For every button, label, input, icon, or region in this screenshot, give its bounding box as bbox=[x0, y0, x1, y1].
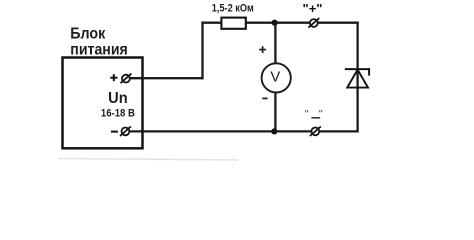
wire: bottom rail bbox=[125, 130, 358, 132]
polarity mark + at voltmeter bbox=[259, 46, 266, 53]
svg-text:Un: Un bbox=[108, 90, 128, 107]
node label "_" (quoted, faint) bbox=[305, 109, 323, 121]
polarity mark - inside supply bbox=[111, 131, 118, 133]
resistor R 1,5-2 kOhm body bbox=[221, 18, 245, 29]
junction: bottom node of voltmeter branch bbox=[271, 128, 277, 134]
svg-text:16-18 В: 16-18 В bbox=[101, 108, 135, 120]
voltmeter PV1 body bbox=[262, 63, 291, 92]
wire: right rail down through zener bbox=[356, 22, 358, 132]
terminal "+" probe point on top rail bbox=[308, 18, 319, 28]
svg-text:": " bbox=[305, 109, 309, 121]
value label 1,5-2 кОм bbox=[212, 3, 254, 15]
svg-text:1,5-2 кОм: 1,5-2 кОм bbox=[212, 3, 254, 15]
svg-text:питания: питания bbox=[70, 41, 128, 58]
node label "+" (quoted) bbox=[303, 1, 323, 16]
power supply block outline bbox=[63, 58, 143, 149]
terminal "-" probe point on bottom rail bbox=[310, 126, 321, 136]
wire: vertical riser from plus wire up to top rail bbox=[201, 22, 203, 80]
zener diode VD cathode bar with bent end bbox=[345, 68, 370, 75]
wire: plus output of supply to riser bbox=[126, 77, 204, 79]
terminal: supply - output bbox=[120, 126, 131, 136]
svg-text:V: V bbox=[270, 70, 280, 86]
svg-text:Блок: Блок bbox=[70, 25, 106, 42]
power supply caption: Блок питания bbox=[70, 25, 128, 58]
terminal: supply + output bbox=[121, 74, 132, 84]
wire: top rail from resistor to top-right corner bbox=[246, 22, 359, 24]
polarity mark + inside supply bbox=[110, 74, 117, 81]
scan artifact faint streak bbox=[58, 159, 238, 161]
svg-text:": " bbox=[319, 109, 323, 121]
label Un bbox=[108, 90, 128, 107]
wire: top rail left segment to resistor bbox=[201, 22, 221, 24]
wire: voltmeter branch vertical bbox=[274, 23, 276, 132]
junction: top node of voltmeter branch bbox=[272, 20, 278, 26]
polarity mark - at voltmeter bbox=[262, 97, 267, 99]
label 16-18 В bbox=[101, 108, 135, 120]
svg-text:"+": "+" bbox=[303, 1, 323, 16]
zener diode VD anode triangle bbox=[347, 70, 368, 88]
